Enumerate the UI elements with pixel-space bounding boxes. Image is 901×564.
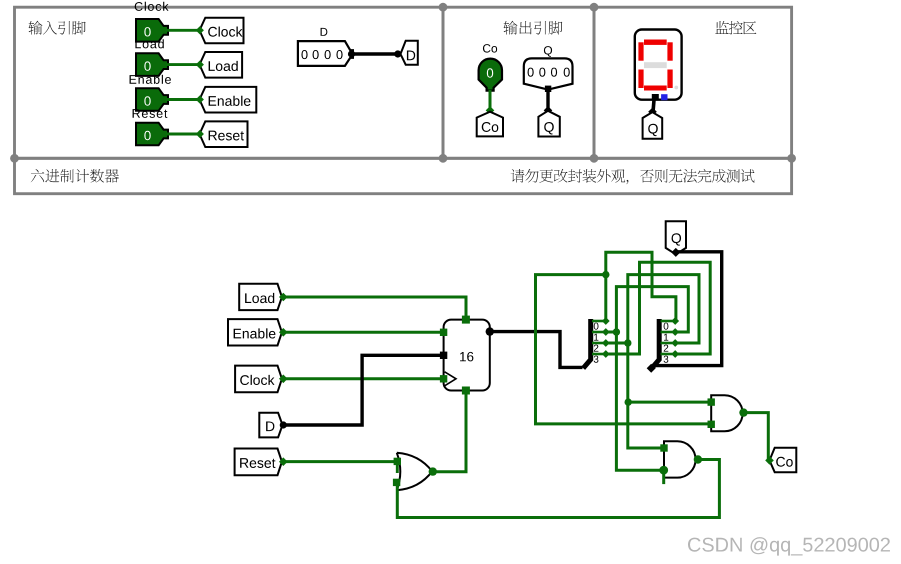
tunnel D (top panel): [401, 41, 418, 65]
bus wire counter output to splitter 1: [490, 332, 583, 368]
tunnel Co (circuit): [770, 448, 797, 473]
tunnel Load (top panel): [200, 52, 243, 78]
wire Q1 drop to AND2 input: [616, 332, 662, 470]
panel divider vertical 1: [442, 7, 445, 158]
splitter S1 bit 2 stub: [592, 342, 606, 345]
counter top port (load): [462, 316, 470, 324]
wire end diamond at tunnel Load: [196, 61, 204, 69]
bus wire Q pin to tunnel Q: [546, 90, 549, 111]
label Co above output pin: [483, 44, 497, 53]
AND gate G3 input junction dot: [659, 466, 668, 475]
bus wire Q tunnel loop to splitter 2: [653, 252, 722, 366]
splitter S1 body: [583, 319, 591, 368]
output pin Q (4-bit, value 0000): [524, 58, 573, 88]
splitter S2 bus end diamond: [647, 364, 656, 373]
panel divider horizontal: [13, 157, 793, 160]
counter clock port: [440, 375, 447, 382]
segment E (lower left, lit): [638, 70, 643, 89]
label Q above output pin: [544, 46, 552, 57]
OR gate input stub 1: [396, 461, 399, 473]
tunnel Clock (top panel): [200, 18, 244, 44]
wire end diamond at tunnel Enable: [196, 95, 204, 103]
tunnel Enable (circuit): [228, 319, 282, 345]
wire Load to counter top: [284, 297, 466, 317]
splitter S2 bit 3 stub: [661, 353, 676, 356]
OR gate input port 2: [393, 479, 400, 486]
splitter S2 bit 0 stub: [661, 320, 676, 323]
counter output port dot: [486, 327, 494, 335]
bus wire display to tunnel Q monitor: [653, 100, 654, 112]
tunnel Q (circuit, points down): [666, 221, 686, 254]
wire end diamond Enable circuit: [279, 328, 288, 337]
panel divider vertical 2: [593, 7, 596, 158]
tunnel D (circuit): [259, 413, 282, 438]
tunnel Co (output, points up): [477, 112, 503, 137]
label: hexadecimal counter caption: [31, 169, 119, 183]
splitter S2 bit 1 stub: [661, 331, 676, 334]
splitter S1 bit 0 stub: [592, 320, 606, 323]
AND gate G3 input stub: [662, 470, 665, 484]
input pin Enable (1-bit, value 0): [136, 88, 168, 111]
wire Q0 route splitter1 to splitter2: [606, 252, 676, 321]
counter bottom port (clear): [462, 387, 470, 395]
display port (blue, unconnected): [661, 94, 667, 100]
label D above pin: [321, 28, 328, 36]
tunnel Reset (circuit): [235, 449, 282, 476]
input pin Reset (1-bit, value 0): [136, 123, 168, 146]
tunnel Reset (top panel): [200, 121, 248, 147]
AND gate G2 input port 2: [708, 421, 715, 428]
wire end diamond at tunnel Reset: [196, 130, 204, 138]
wire Enable to counter: [284, 331, 444, 334]
AND gate G2 output dot: [739, 408, 747, 416]
output pin Co (1-bit, value 0): [479, 59, 502, 91]
label: output pins section title: [503, 21, 562, 35]
AND gate G3 (lower): [664, 441, 696, 477]
splitter S2 body: [652, 319, 660, 368]
wire Q0 branch to AND1 input: [536, 275, 710, 424]
AND gate G3 input port 1: [660, 444, 667, 451]
wire Clock to counter: [283, 377, 444, 380]
wire end diamond Reset circuit: [279, 457, 288, 466]
tunnel Enable (top panel): [200, 87, 257, 113]
wire end diamond Co: [486, 106, 495, 115]
wire from pin Reset to tunnel: [166, 133, 200, 136]
bus wire D pin to tunnel D: [352, 52, 398, 55]
segment B (upper right, lit): [667, 42, 672, 60]
segment C (lower right, lit): [667, 70, 672, 89]
display input port (black): [652, 94, 659, 101]
panel frame outer border: [15, 7, 792, 194]
counter data port (4-bit): [440, 352, 447, 359]
splitter S2 bit 2 stub: [661, 342, 676, 345]
wire Q2 branch to AND1 input: [629, 401, 710, 404]
wire AND G3 output feedback loop to OR input: [397, 460, 719, 518]
junction dot Q2: [624, 339, 631, 346]
port square on Q pin: [545, 86, 551, 92]
wire Reset to OR gate input: [283, 460, 397, 463]
tunnel Q (output, points up): [538, 111, 559, 137]
7-segment display body: [635, 30, 682, 100]
label: input pins section title: [28, 21, 85, 35]
counter clock wedge: [445, 372, 456, 386]
segment D (bottom, lit): [644, 86, 667, 91]
watermark CSDN: [688, 537, 890, 556]
OR gate output dot: [429, 467, 437, 475]
segment G (middle, off): [644, 62, 667, 68]
wire from pin Clock to tunnel: [166, 29, 200, 32]
tunnel Clock (circuit): [235, 366, 282, 393]
junction dot Q0 branch: [602, 271, 609, 278]
wire end diamond monitor Q: [648, 108, 657, 117]
counter enable port: [440, 329, 447, 336]
wire end diamond Co circuit: [765, 456, 774, 465]
bus wire D to counter: [284, 355, 442, 425]
wire end diamond Clock circuit: [279, 375, 288, 384]
tunnel Q (monitor, points up): [643, 112, 663, 139]
label: do-not-modify caption: [511, 169, 755, 184]
wire Q2 drop to AND gates: [628, 343, 663, 448]
bus dot D circuit: [280, 421, 287, 428]
wire Q1 route splitter1 to splitter2: [606, 287, 689, 332]
segment A (top, lit): [644, 40, 667, 45]
segment F (upper left, lit): [638, 42, 643, 60]
junction dot Q1: [613, 328, 620, 335]
frame junction dots: [10, 3, 796, 163]
wire OR output to counter clear: [432, 392, 466, 472]
wire end diamond at tunnel Clock: [196, 26, 204, 34]
wire from pin Load to tunnel: [166, 63, 200, 66]
wire Q2 route splitter1 to splitter2: [606, 275, 699, 343]
decimal point (off): [674, 86, 678, 90]
wire Co pin to tunnel Co: [489, 90, 492, 112]
bus junction dot left: [348, 50, 355, 57]
OR gate input port 1 (Reset): [394, 458, 401, 465]
wire end diamond Q: [544, 106, 553, 115]
tunnel Load (circuit): [239, 284, 282, 310]
junction dot Q2 branch: [625, 398, 632, 405]
OR gate G1: [397, 453, 432, 490]
label: monitor section title: [715, 21, 756, 35]
input pin Load (1-bit, value 0): [136, 53, 168, 76]
splitter S1 bit 1 stub: [592, 331, 606, 334]
input pin D (4-bit, value 0000): [298, 41, 353, 66]
AND gate G3 output dot: [694, 455, 702, 463]
bus junction dot right: [394, 50, 401, 57]
bus end diamond Q circuit: [671, 248, 680, 257]
wire from pin Enable to tunnel: [166, 98, 200, 101]
splitter S1 bit 3 stub: [592, 353, 606, 356]
wire Q3 route splitter1 to splitter2: [606, 262, 710, 354]
counter U1 body (mod 16): [444, 320, 490, 391]
wire end diamond Load circuit: [279, 293, 288, 302]
label Reset above pin: [135, 2, 169, 11]
AND gate G2 input port 1: [708, 398, 715, 405]
input pin Clock (1-bit, value 0): [136, 19, 168, 42]
AND gate G2 (upper): [711, 395, 742, 431]
wire AND G2 output to tunnel Co: [744, 413, 769, 461]
counter label 16: [460, 352, 473, 362]
